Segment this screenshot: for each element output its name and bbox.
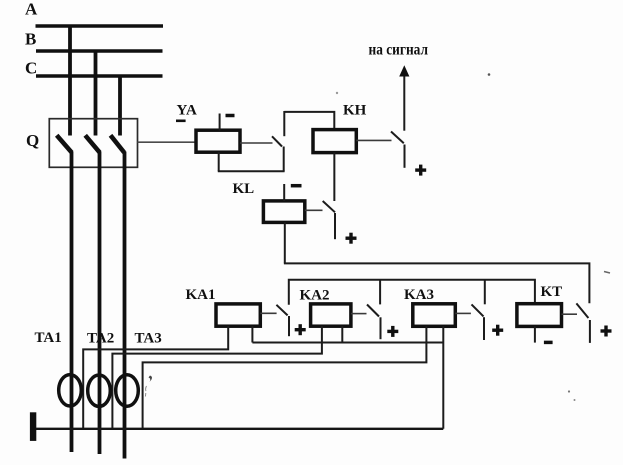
- transformer TA1: [59, 375, 82, 406]
- wire tap phase B: [94, 50, 98, 136]
- wire phase C vertical: [123, 152, 127, 459]
- breaker Q box: [49, 119, 137, 168]
- minus sign at KL: [291, 184, 302, 188]
- scan speck dot2: [488, 73, 491, 76]
- wire bus2 drop to KA2 contact: [379, 280, 381, 305]
- wire KL coil to contact: [305, 209, 323, 211]
- svg-text:KA3: KA3: [404, 287, 434, 303]
- contact KL: blade: [323, 201, 335, 212]
- wire YA contact to KH coil top: [284, 112, 334, 130]
- minus sign at KT: [544, 341, 553, 345]
- breaker Q blade pole 3: [111, 135, 125, 152]
- breaker Q blade pole 2: [85, 135, 100, 152]
- contact KA1: bottom terminal: [288, 316, 290, 336]
- plus sign at KA2 contact: [387, 326, 398, 337]
- plus sign at KL contact: [346, 233, 357, 244]
- contact KA1: blade: [276, 305, 287, 316]
- coil YA label underline: [176, 120, 186, 123]
- contact KA2: blade: [367, 305, 379, 317]
- contact of YA circuit: blade: [272, 136, 282, 146]
- contact KL: bottom terminal: [334, 213, 336, 239]
- wire tap phase A: [68, 25, 72, 136]
- wire YA coil top stub: [219, 114, 221, 131]
- svg-text:KT: KT: [541, 284, 563, 300]
- coil KT: [517, 304, 562, 327]
- contact KA2: bottom terminal: [380, 317, 382, 339]
- bus C: [36, 74, 163, 77]
- scan speck dash top right: [604, 272, 610, 274]
- scan speck squiggle: [145, 386, 146, 397]
- scan speck dot: [568, 390, 570, 392]
- bus A: [36, 24, 164, 28]
- wire KA1 bottom-right drop: [251, 326, 253, 343]
- wire KA2 bottom-left drop: [112, 326, 322, 429]
- wire KA2 bottom-right drop: [341, 326, 343, 343]
- wire YA coil to contact: [240, 142, 273, 144]
- wire bottom bus: [36, 428, 443, 430]
- wire KH coil bottom to KL contact: [333, 153, 335, 202]
- wire horizontal KA1 to KA3 bottoms: [252, 342, 443, 344]
- wire bus2 drop to KA3 contact: [484, 280, 486, 305]
- plus sign at KH contact: [415, 165, 426, 176]
- plus sign at KT contact: [601, 326, 612, 337]
- svg-text:Q: Q: [26, 131, 39, 150]
- plus sign at KA3 contact: [492, 325, 503, 336]
- svg-text:на сигнал: на сигнал: [369, 41, 429, 58]
- svg-text:KA2: KA2: [300, 288, 330, 304]
- contact KH: bottom terminal: [404, 145, 406, 168]
- coil KL: [263, 201, 304, 223]
- transformer TA3: [116, 375, 139, 406]
- wire tap phase C: [118, 75, 122, 136]
- svg-text:TA2: TA2: [87, 331, 114, 347]
- coil KH: [313, 130, 356, 153]
- svg-text:A: A: [25, 0, 38, 19]
- wire YA bottom loop horizontal: [218, 170, 285, 172]
- svg-text:KL: KL: [233, 181, 255, 197]
- plus sign at KA1 contact: [295, 324, 306, 335]
- wire KT coil to contact: [562, 313, 578, 315]
- svg-text:YA: YA: [177, 102, 197, 118]
- coil KA1: [216, 304, 260, 326]
- contact KT: bottom terminal: [589, 320, 591, 343]
- svg-text:KH: KH: [343, 103, 367, 119]
- wire bus1 KL to KT contact: [284, 263, 590, 303]
- bus B: [36, 49, 163, 52]
- wire KL coil top stub: [283, 184, 285, 201]
- wire YA coil bottom stub: [218, 152, 220, 171]
- wire phase A vertical: [70, 152, 74, 453]
- wire KL coil bottom stub: [284, 222, 286, 263]
- svg-text:KA1: KA1: [186, 287, 216, 303]
- ground terminal bar: [30, 412, 36, 441]
- svg-text:C: C: [25, 59, 37, 78]
- contact KT: blade: [576, 303, 588, 318]
- coil KA2: [311, 304, 351, 326]
- coil YA: [196, 130, 240, 152]
- wire Q to YA coil: [138, 141, 197, 143]
- contact of YA circuit: bottom terminal: [283, 147, 285, 172]
- wire phase B vertical: [98, 152, 102, 455]
- contact of YA circuit: top terminal: [283, 111, 285, 136]
- wire KA2 coil to contact: [351, 313, 367, 315]
- wire KA3 bottom-left drop: [143, 326, 427, 429]
- coil KA3: [413, 304, 456, 327]
- scan speck dot3: [336, 92, 338, 94]
- arrow to signal: [403, 74, 405, 131]
- minus sign at YA: [226, 114, 235, 118]
- wire KT coil bottom stub: [534, 326, 536, 342]
- svg-text:TA3: TA3: [135, 331, 162, 347]
- wire KH coil to contact: [356, 139, 391, 141]
- breaker Q blade pole 1: [57, 135, 72, 152]
- svg-text:TA1: TA1: [35, 330, 62, 346]
- wire KA3 bottom-right drop: [442, 326, 444, 429]
- wire KA1 bottom-left drop: [83, 326, 228, 429]
- contact KA3: bottom terminal: [483, 317, 485, 340]
- wire bus2 KA contacts to KT coil: [289, 280, 535, 305]
- wire KA1 coil to contact: [260, 312, 276, 314]
- contact KA3: blade: [472, 304, 484, 316]
- wire KA3 coil to contact: [455, 312, 471, 314]
- scan speck comma: [149, 376, 153, 383]
- svg-text:B: B: [25, 29, 36, 48]
- transformer TA2: [88, 375, 111, 406]
- contact KH: blade: [391, 132, 404, 144]
